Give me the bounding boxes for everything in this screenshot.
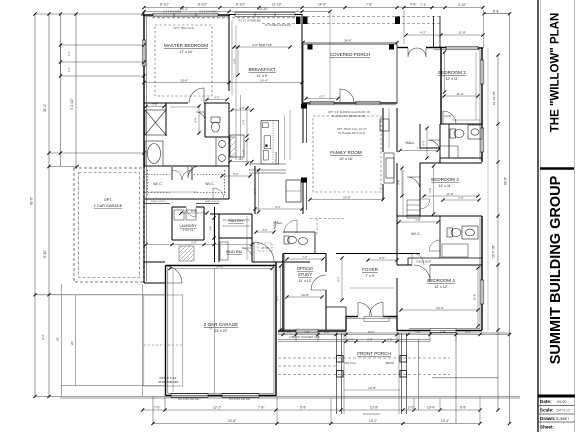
svg-text:9'-4": 9'-4" [275,205,280,209]
right low dim y341 [278,341,430,343]
svg-text:IN PLACE OF 9' CLG.: IN PLACE OF 9' CLG. [338,131,366,135]
wall: rear wall porch-to-bed2 [397,47,408,49]
hatch: kitchen wall [230,137,236,157]
garage door 1 [171,394,208,398]
svg-text:3'-8": 3'-8" [152,102,157,106]
svg-text:5'-4": 5'-4" [194,117,198,122]
svg-text:W.I.C.: W.I.C. [153,182,162,186]
toilet bath3 [447,228,453,237]
dashed: porch front lines [278,357,450,359]
svg-text:OFFICE/: OFFICE/ [297,266,314,271]
svg-text:6'-10": 6'-10" [458,3,466,7]
dim: family room width [310,199,383,201]
svg-text:7'-4": 7'-4" [420,3,426,7]
laundry appliances [174,210,184,220]
svg-text:12'-8": 12'-8" [368,386,376,390]
svg-text:5'-6": 5'-6" [233,172,238,176]
left dim line 3 [60,14,62,167]
svg-text:5'-6": 5'-6" [191,209,197,213]
pantry shelves [222,219,250,221]
wall: bedroom4 west [396,278,398,330]
left horiz connector y385 [61,385,165,387]
svg-text:12'-8": 12'-8" [370,406,378,410]
dim: bed2 interior [444,95,478,97]
svg-text:20' x 16': 20' x 16' [339,157,352,161]
svg-text:10'-8": 10'-8" [301,293,309,297]
hall closet wall [419,124,421,148]
svg-text:6'-0": 6'-0" [422,140,426,145]
door: front entry left leaf [358,303,372,317]
rear porch post E [389,45,394,50]
svg-text:10'-0": 10'-0" [368,330,375,334]
porch steps [363,413,380,415]
garage door 2 [222,394,259,398]
svg-text:1'-4": 1'-4" [286,330,291,334]
svg-text:PLACE OF 2 WDWS & DR.: PLACE OF 2 WDWS & DR. [332,114,367,118]
wall: foyer front (recessed) [346,316,358,318]
svg-text:1/4"=1'-0": 1/4"=1'-0" [556,409,571,413]
wall: rear wall at porch bottom [302,102,397,104]
hatch: hall tile [179,246,194,261]
door: bedroom4 [414,265,430,281]
svg-text:COVERED PORCH: COVERED PORCH [330,52,371,57]
svg-text:Date:: Date: [540,399,552,404]
svg-text:4'-6" BAR TOP: 4'-6" BAR TOP [252,43,272,47]
door: hall linen [420,199,430,209]
svg-text:HALL: HALL [406,141,415,145]
bottom garage dim extension x87 [152,397,154,424]
svg-text:4'-4": 4'-4" [238,157,243,161]
svg-text:8'-8": 8'-8" [493,9,499,13]
svg-text:7'-2": 7'-2" [302,255,307,259]
wall: house east [481,48,483,162]
fireplace family [384,153,394,183]
dashed: attic access [258,243,272,251]
rear porch slab outline [303,44,397,103]
svg-text:13'-0": 13'-0" [275,295,279,302]
wall: bath2 fixtures wall [448,124,450,158]
wall: window seat bedroom4 [408,257,440,259]
dim: mstr bath [170,106,200,108]
wic hanging rods left closet [145,174,170,176]
wall: foyer side east [396,316,398,331]
right dim line inner [497,55,499,410]
dim: porch width [303,42,397,44]
svg-text:8'0 X 8'0 OH DR.: 8'0 X 8'0 OH DR. [178,397,199,401]
svg-text:34'-8": 34'-8" [344,39,352,43]
wall: hall east x440 [439,124,441,163]
window: bedroom2 north wall [446,46,478,49]
svg-text:7'-0": 7'-0" [154,406,160,410]
dim: vertical hall x403 [402,170,404,215]
ticks front wall dims [281,333,284,336]
svg-text:14'-4": 14'-4" [260,79,268,83]
svg-text:12' x 12': 12' x 12' [434,285,447,289]
svg-text:WDW SEAT: WDW SEAT [416,260,431,264]
svg-text:61'-8": 61'-8" [30,197,34,205]
wall: mud east [251,214,253,262]
window: master north [153,13,218,17]
bottom-right vertical dim stubs [277,397,480,424]
door: office [311,275,326,290]
left horiz connector y295 [35,294,165,296]
wall: wic4 / bath3 divider [439,216,441,258]
dashed: opt storage in garage [144,295,183,386]
wall: master bedroom south [144,102,188,104]
master sink 2 [219,155,226,162]
dim: kitchen bar [234,46,290,48]
top dim line row2 [144,7,432,9]
wall: pantry/mud west [218,214,220,262]
wall: bedroom2 west [440,48,442,124]
svg-text:11'-8": 11'-8" [458,30,465,34]
inner face: master north [145,16,152,18]
svg-text:BEDROOM 3: BEDROOM 3 [431,177,459,182]
wall: house west (master wing) [143,15,145,283]
svg-text:16'-10 7/8": 16'-10 7/8" [492,91,496,105]
svg-text:7'-6": 7'-6" [416,146,421,150]
svg-text:7'-8": 7'-8" [415,218,420,222]
wall: bath3 bottom [440,257,482,259]
roof band post E [395,17,400,25]
dashed: family tray ceiling [313,116,381,192]
porch edge west double [336,333,338,414]
svg-text:4'-6": 4'-6" [209,225,213,230]
svg-text:LAUNDRY: LAUNDRY [179,224,197,228]
inner face: office front [279,328,345,330]
dim: porch low interior [344,389,400,391]
dashed gallery ceiling [310,218,345,220]
right dim extension x456 [455,334,457,424]
svg-text:OPT.: OPT. [104,198,112,202]
dim: bed4 interior [401,309,478,311]
svg-text:2'-2": 2'-2" [41,334,45,340]
window: rear family (porch) [310,101,334,105]
svg-text:11' x 9': 11' x 9' [257,74,268,78]
svg-text:W.I.C.: W.I.C. [205,182,214,186]
right dim line outer [509,14,511,424]
top right dim line bedroom2 [404,7,483,9]
porch post NW [337,356,344,363]
kitchen tall cabinets [261,121,279,165]
wall: foyer north [336,253,420,255]
dim: garage interior [170,268,272,270]
door: front entry right leaf [370,303,384,317]
svg-text:8'-10": 8'-10" [43,250,47,258]
inner face: garage west [167,268,169,394]
dim: bath2 [452,119,480,121]
svg-text:11'-8": 11'-8" [473,294,477,300]
wall: porch west [301,14,303,103]
porch post SW [337,371,344,378]
wic hanging rods right closet [194,174,226,176]
inner face: east wall upper [479,50,481,161]
svg-text:2'-0": 2'-0" [408,406,414,410]
svg-text:W.I.C.: W.I.C. [411,232,421,236]
wall: family room east / fireplace wall [382,108,384,152]
inner face: foyer front [347,317,396,319]
wall: bedroom2 north [446,47,483,49]
door: laundry [186,207,196,217]
svg-text:STUDY: STUDY [298,272,312,277]
dim: laundry [181,212,207,214]
porch bottom grade line [60,397,520,399]
svg-text:8'0 X 8'0 OH DR.: 8'0 X 8'0 OH DR. [229,397,250,401]
wall: house east lower [481,216,483,330]
svg-text:24'-5 7/8": 24'-5 7/8" [492,245,496,258]
svg-text:10'-4": 10'-4" [427,406,435,410]
door: bedroom2 [443,111,456,124]
wall: master bath east [228,103,230,199]
title table grid [538,405,575,407]
wall: bedroom3 west [419,163,421,216]
dim: extension line master right [231,20,233,95]
left dim line 4 [75,14,77,168]
svg-text:5'-6": 5'-6" [397,179,401,184]
svg-text:7'-2": 7'-2" [458,196,463,200]
door: rear french right leaf [417,48,426,57]
wall: garage north [166,265,277,267]
media niche [380,119,389,131]
window: bedroom2 east [480,60,484,84]
wall: garage west [165,266,167,396]
wall below wic band [144,203,170,205]
svg-text:OPT. TRAY CLG.: OPT. TRAY CLG. [173,26,195,30]
svg-text:7'-8": 7'-8" [366,3,372,7]
svg-text:5'-1 1/2": 5'-1 1/2" [70,98,74,110]
porch post NE small [400,356,407,363]
posts at family cased opening [301,104,307,109]
svg-text:SHELF & ROD: SHELF & ROD [151,201,166,203]
bottom garage dim extension x132 [164,397,166,411]
svg-text:7' x 9': 7' x 9' [365,274,374,278]
door: master bedroom [189,88,204,103]
svg-text:24'-8": 24'-8" [216,265,224,269]
porch slab lines [278,332,510,334]
right low dim y334 [278,334,510,336]
svg-text:8'-1/2": 8'-1/2" [236,3,245,7]
svg-text:FOYER: FOYER [362,267,379,272]
svg-text:20'-8": 20'-8" [343,196,351,200]
rear porch post W [308,45,313,50]
svg-text:4'-0": 4'-0" [214,95,219,99]
svg-text:4'-8": 4'-8" [324,330,329,334]
wall: laundry block [172,206,186,208]
wall: office east [325,254,327,273]
panel separator line [540,167,574,169]
wall: family room west columns [302,103,304,143]
dashed: opt 1-car garage inner [79,173,140,278]
extra ticks [496,160,511,336]
bottom dim line y423 [153,423,480,425]
wall: breakfast north (window band) [229,14,302,16]
dashed: opt 1-car garage outer [74,168,144,282]
svg-text:9'-6": 9'-6" [428,187,432,192]
garage ext dim lines [61,284,63,397]
dim: master interior width [144,82,302,84]
wall: shower enclosure [165,103,167,136]
svg-text:STORAGE RM: STORAGE RM [158,380,179,384]
svg-text:8'-1/2": 8'-1/2" [198,3,207,7]
svg-text:5'-8": 5'-8" [300,406,306,410]
svg-text:11'-4": 11'-4" [456,92,463,96]
svg-text:FRONT PORCH: FRONT PORCH [357,351,391,356]
svg-text:13'-2": 13'-2" [369,419,377,423]
closet by kitchen [286,180,301,202]
svg-text:23' x 22': 23' x 22' [214,329,227,333]
wall: front wall stub east of porch [397,330,408,332]
top dim line row3 [144,11,330,13]
sink powder [299,238,308,245]
dim: office interior [287,296,322,298]
wall: office closet [326,306,346,308]
svg-text:3'-1": 3'-1" [67,51,71,56]
svg-text:FAMILY ROOM: FAMILY ROOM [330,150,362,155]
svg-text:30': 30' [56,337,60,341]
svg-text:5'-8 X 7'-4: 5'-8 X 7'-4 [183,229,194,232]
window: bedroom4 east [480,280,484,304]
dim: vertical at x330 [329,12,331,101]
left dim line outer [34,14,36,397]
svg-text:4'-8": 4'-8" [410,3,416,7]
svg-text:7'-8": 7'-8" [258,406,264,410]
svg-text:4'-2": 4'-2" [420,30,426,34]
master sink 1 [219,141,226,148]
door: wic master entry [213,188,224,199]
steps at entry [364,317,389,322]
dim: mud vert [246,216,248,260]
toilet powder [284,236,289,244]
svg-text:2'-8": 2'-8" [387,337,392,341]
door: wc [196,112,205,121]
svg-text:BEDROOM 4: BEDROOM 4 [427,278,455,283]
svg-text:Sheet:: Sheet: [540,425,555,430]
svg-text:8'-2": 8'-2" [337,276,341,281]
svg-text:13'-4": 13'-4" [441,419,449,423]
svg-text:6'-8": 6'-8" [440,330,445,334]
svg-text:5'-8": 5'-8" [415,330,420,334]
dim: vertical right of family [388,108,390,148]
svg-text:11' x 12': 11' x 12' [299,279,312,283]
door: rear french left leaf [408,48,417,57]
svg-text:5'-8": 5'-8" [233,58,237,63]
more left ticks [47,151,50,154]
left horiz connector y153 [49,152,144,154]
roof band post W [296,17,301,25]
svg-text:SUMMIT BUILDING GROUP: SUMMIT BUILDING GROUP [548,175,564,364]
sheet right border [574,0,576,432]
door: powder [284,220,297,233]
inner face: office west [284,255,286,331]
svg-text:24'-8": 24'-8" [228,419,236,423]
svg-text:ATTIC: ATTIC [261,246,269,250]
wall: foyer side west [345,316,347,331]
top dim line row1 [35,13,143,15]
svg-text:6/1/20: 6/1/20 [557,400,567,404]
svg-text:MUD RM: MUD RM [226,250,242,254]
dim: wic [150,191,198,193]
svg-text:CLOS.: CLOS. [444,114,453,118]
svg-text:5'-4": 5'-4" [304,330,309,334]
svg-text:SHELF & ROD: SHELF & ROD [205,201,220,203]
inner face: west wall [145,17,147,282]
door: mud to hall [242,248,252,258]
dashed: master tray ceiling [155,25,212,96]
porch dim extension x418 [418,339,420,410]
master vanity counter [215,137,217,166]
dashed: porch roof line lower [262,23,440,25]
inner face: garage east [273,264,275,394]
svg-text:14'-8": 14'-8" [318,3,326,7]
svg-text:18'-6": 18'-6" [180,79,188,83]
window: breakfast north [235,13,295,17]
svg-text:2'-0": 2'-0" [348,337,353,341]
svg-text:SUMMIT: SUMMIT [556,417,569,421]
svg-text:THE "WILLOW" PLAN: THE "WILLOW" PLAN [550,13,562,133]
svg-text:9'-8": 9'-8" [379,256,385,260]
wall: hall spine east of family [396,108,398,152]
toilet master wc [211,117,220,123]
svg-text:4'-8": 4'-8" [242,149,246,154]
svg-text:12'-2": 12'-2" [213,406,221,410]
wall: mud/garage hall south [144,261,165,263]
tub bath2 [440,146,458,158]
door: wic4 [412,253,424,265]
svg-text:8'-1/2": 8'-1/2" [160,3,169,7]
door: garage to mud [166,266,183,283]
dashed: porch roof line upper [152,17,302,19]
wall: bedroom3 north [420,162,482,164]
wall: powder room box [283,231,315,233]
wall: bath2 south [440,157,482,159]
svg-text:HALL: HALL [273,221,277,229]
svg-text:12' SLIDING GLASS DR.: 12' SLIDING GLASS DR. [265,24,292,27]
kitchen island / bar [249,163,286,165]
tub master [145,141,163,166]
svg-text:4'-0 X 1'-6 WDW ABV.: 4'-0 X 1'-6 WDW ABV. [238,20,262,23]
window: master west [142,40,146,66]
front stoop steps [344,317,399,415]
svg-text:10'-10": 10'-10" [258,7,268,11]
svg-text:11'-10": 11'-10" [272,3,282,7]
svg-text:20': 20' [70,341,74,345]
door: bath2 [428,140,440,152]
inner face: rear wall [303,104,396,106]
svg-text:6'-8": 6'-8" [460,406,466,410]
dim: bed3 interior [424,195,478,197]
svg-text:BRICK: BRICK [386,361,395,365]
svg-text:2 BRICK SOLDIER CRS.: 2 BRICK SOLDIER CRS. [289,335,321,339]
door: bath3 [429,240,440,251]
wall: office front [278,330,346,332]
vanity bath2 [468,125,482,139]
window: office front [296,329,318,333]
svg-text:5'-4": 5'-4" [242,119,246,124]
dim: bed2 vert [475,52,477,120]
left dim line 2 [48,14,50,397]
svg-text:MASTER BEDROOM: MASTER BEDROOM [164,43,208,48]
wall: bedroom4 south (front) [408,330,482,332]
svg-text:4'-0": 4'-0" [239,106,244,110]
bottom dim line y410 [143,409,480,411]
wall: wc room [204,103,206,137]
svg-text:T&G CLG.: T&G CLG. [343,361,356,365]
svg-text:Drawn:: Drawn: [540,416,556,421]
wall: pantry north [210,213,252,215]
wall: office west [282,254,284,332]
svg-text:61'-8": 61'-8" [504,177,508,185]
wall: laundry west spine [214,207,216,262]
